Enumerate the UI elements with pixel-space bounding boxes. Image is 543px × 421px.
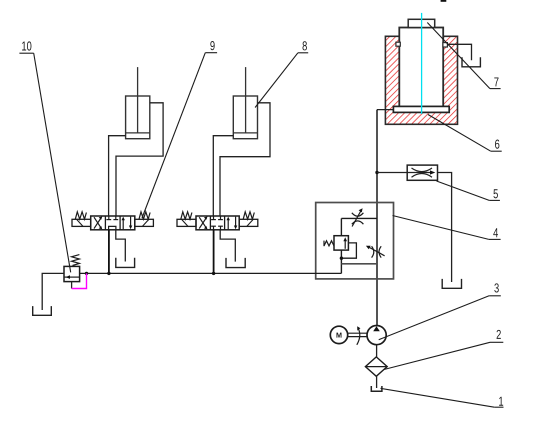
tank T1 (valve 9 tank) <box>116 258 135 268</box>
valve 9 left spring <box>75 212 86 219</box>
valve 10 spring <box>72 255 80 266</box>
label 9 <box>142 41 217 218</box>
wire throttle to relief valve <box>340 218 342 235</box>
valve 9 left cell cross arrows <box>94 216 102 229</box>
throttle valve 5 <box>407 165 437 180</box>
valve 8 centre cell blocked ports <box>211 216 223 230</box>
valve 8 body <box>196 216 239 230</box>
valve 8 left cell cross arrows <box>199 216 207 229</box>
node riser-throttle junction <box>375 171 378 174</box>
cylinder 7 body <box>399 28 443 108</box>
valve 8 right spring <box>243 212 254 219</box>
valve 9 body <box>91 216 135 230</box>
wire main riser <box>376 110 378 326</box>
valve 8 right solenoid <box>239 219 258 226</box>
wire pressure bus <box>80 272 342 274</box>
wire cylinder8 cap port <box>213 136 233 216</box>
node pilot junction <box>340 257 343 260</box>
valve 9 centre cell blocked ports <box>106 216 118 230</box>
label 6 <box>428 115 502 152</box>
wire cylinder9 cap port <box>109 136 126 216</box>
valve 8 right cell arrows <box>227 217 238 230</box>
wire valve 9 T line <box>116 230 126 262</box>
motor-pump shaft <box>348 333 368 336</box>
cylinder 9 (left cylinder) <box>126 67 150 139</box>
label 10 <box>19 41 70 272</box>
wire riser to throttle 5 <box>377 172 407 174</box>
valve 8 left spring <box>181 212 192 219</box>
valve 9 left solenoid <box>72 219 91 226</box>
relief valve spring <box>324 241 334 247</box>
tank T2 (valve 8 tank) <box>226 258 245 268</box>
filter 2 <box>365 357 387 376</box>
valve 9 right spring <box>139 212 150 219</box>
relief valve in block 4 <box>334 236 348 250</box>
wire valve 10 bottom stub <box>71 282 73 289</box>
tank T3 (throttle 5 drain tank) <box>442 279 461 288</box>
valve 10 body <box>64 266 80 281</box>
motor M <box>330 326 347 343</box>
cylinder 7 right trunnion <box>443 43 448 47</box>
wire valve 10 drain to tank <box>42 273 64 310</box>
cylinder 7 top cap <box>408 19 435 27</box>
wire cylinder9 rod port <box>116 103 163 216</box>
wire cylinder drain <box>447 44 471 60</box>
label 7 <box>427 23 500 89</box>
wire valve 8 P line <box>213 230 215 274</box>
label 5 <box>437 181 500 200</box>
wire pump to filter <box>376 345 378 357</box>
pilot line (magenta) <box>72 273 87 288</box>
wire valve 9 P line <box>108 230 110 274</box>
label 4 <box>393 216 501 240</box>
wire valve 8 T line <box>220 230 235 262</box>
cylinder 8 (right cylinder) <box>233 67 257 139</box>
label 3 <box>379 283 501 339</box>
relief valve pilot loop <box>341 243 356 258</box>
valve block 4 enclosure <box>316 203 394 279</box>
wire plate to riser <box>377 109 393 111</box>
label 1 <box>381 388 504 407</box>
node bus-valve8 junction <box>212 272 215 275</box>
wire throttle 5 to drain tank <box>438 173 452 283</box>
wire cylinder8 rod port <box>220 103 270 216</box>
tank T5 (cylinder drain tank) <box>462 57 480 67</box>
wire filter to tank 1 <box>376 376 378 388</box>
node bus-valve10 junction <box>85 272 88 275</box>
tank T4 (valve 10 tank) <box>33 306 52 315</box>
valve 8 left solenoid <box>177 219 196 226</box>
cylinder 7 left trunnion <box>396 42 400 46</box>
piston plate <box>393 106 449 112</box>
rotation arrow <box>357 326 361 345</box>
throttle inside block 4 (upper) <box>341 208 377 226</box>
valve 9 right solenoid <box>135 219 154 226</box>
node bus-valve9 junction <box>107 272 110 275</box>
tank container 6 (hatched quench tank) <box>385 36 457 124</box>
wire relief valve outlet <box>340 250 342 273</box>
wire relief to riser <box>341 263 377 265</box>
cropped caption mark <box>441 0 447 2</box>
label 2 <box>384 330 503 370</box>
valve 9 right cell arrows <box>122 217 133 230</box>
label 8 <box>255 41 308 107</box>
tank 1 (suction tank) <box>371 386 382 391</box>
cyan centerline <box>421 13 423 114</box>
pump 3 <box>367 326 386 345</box>
throttle inside block 4 (lower, on riser) <box>366 246 385 258</box>
